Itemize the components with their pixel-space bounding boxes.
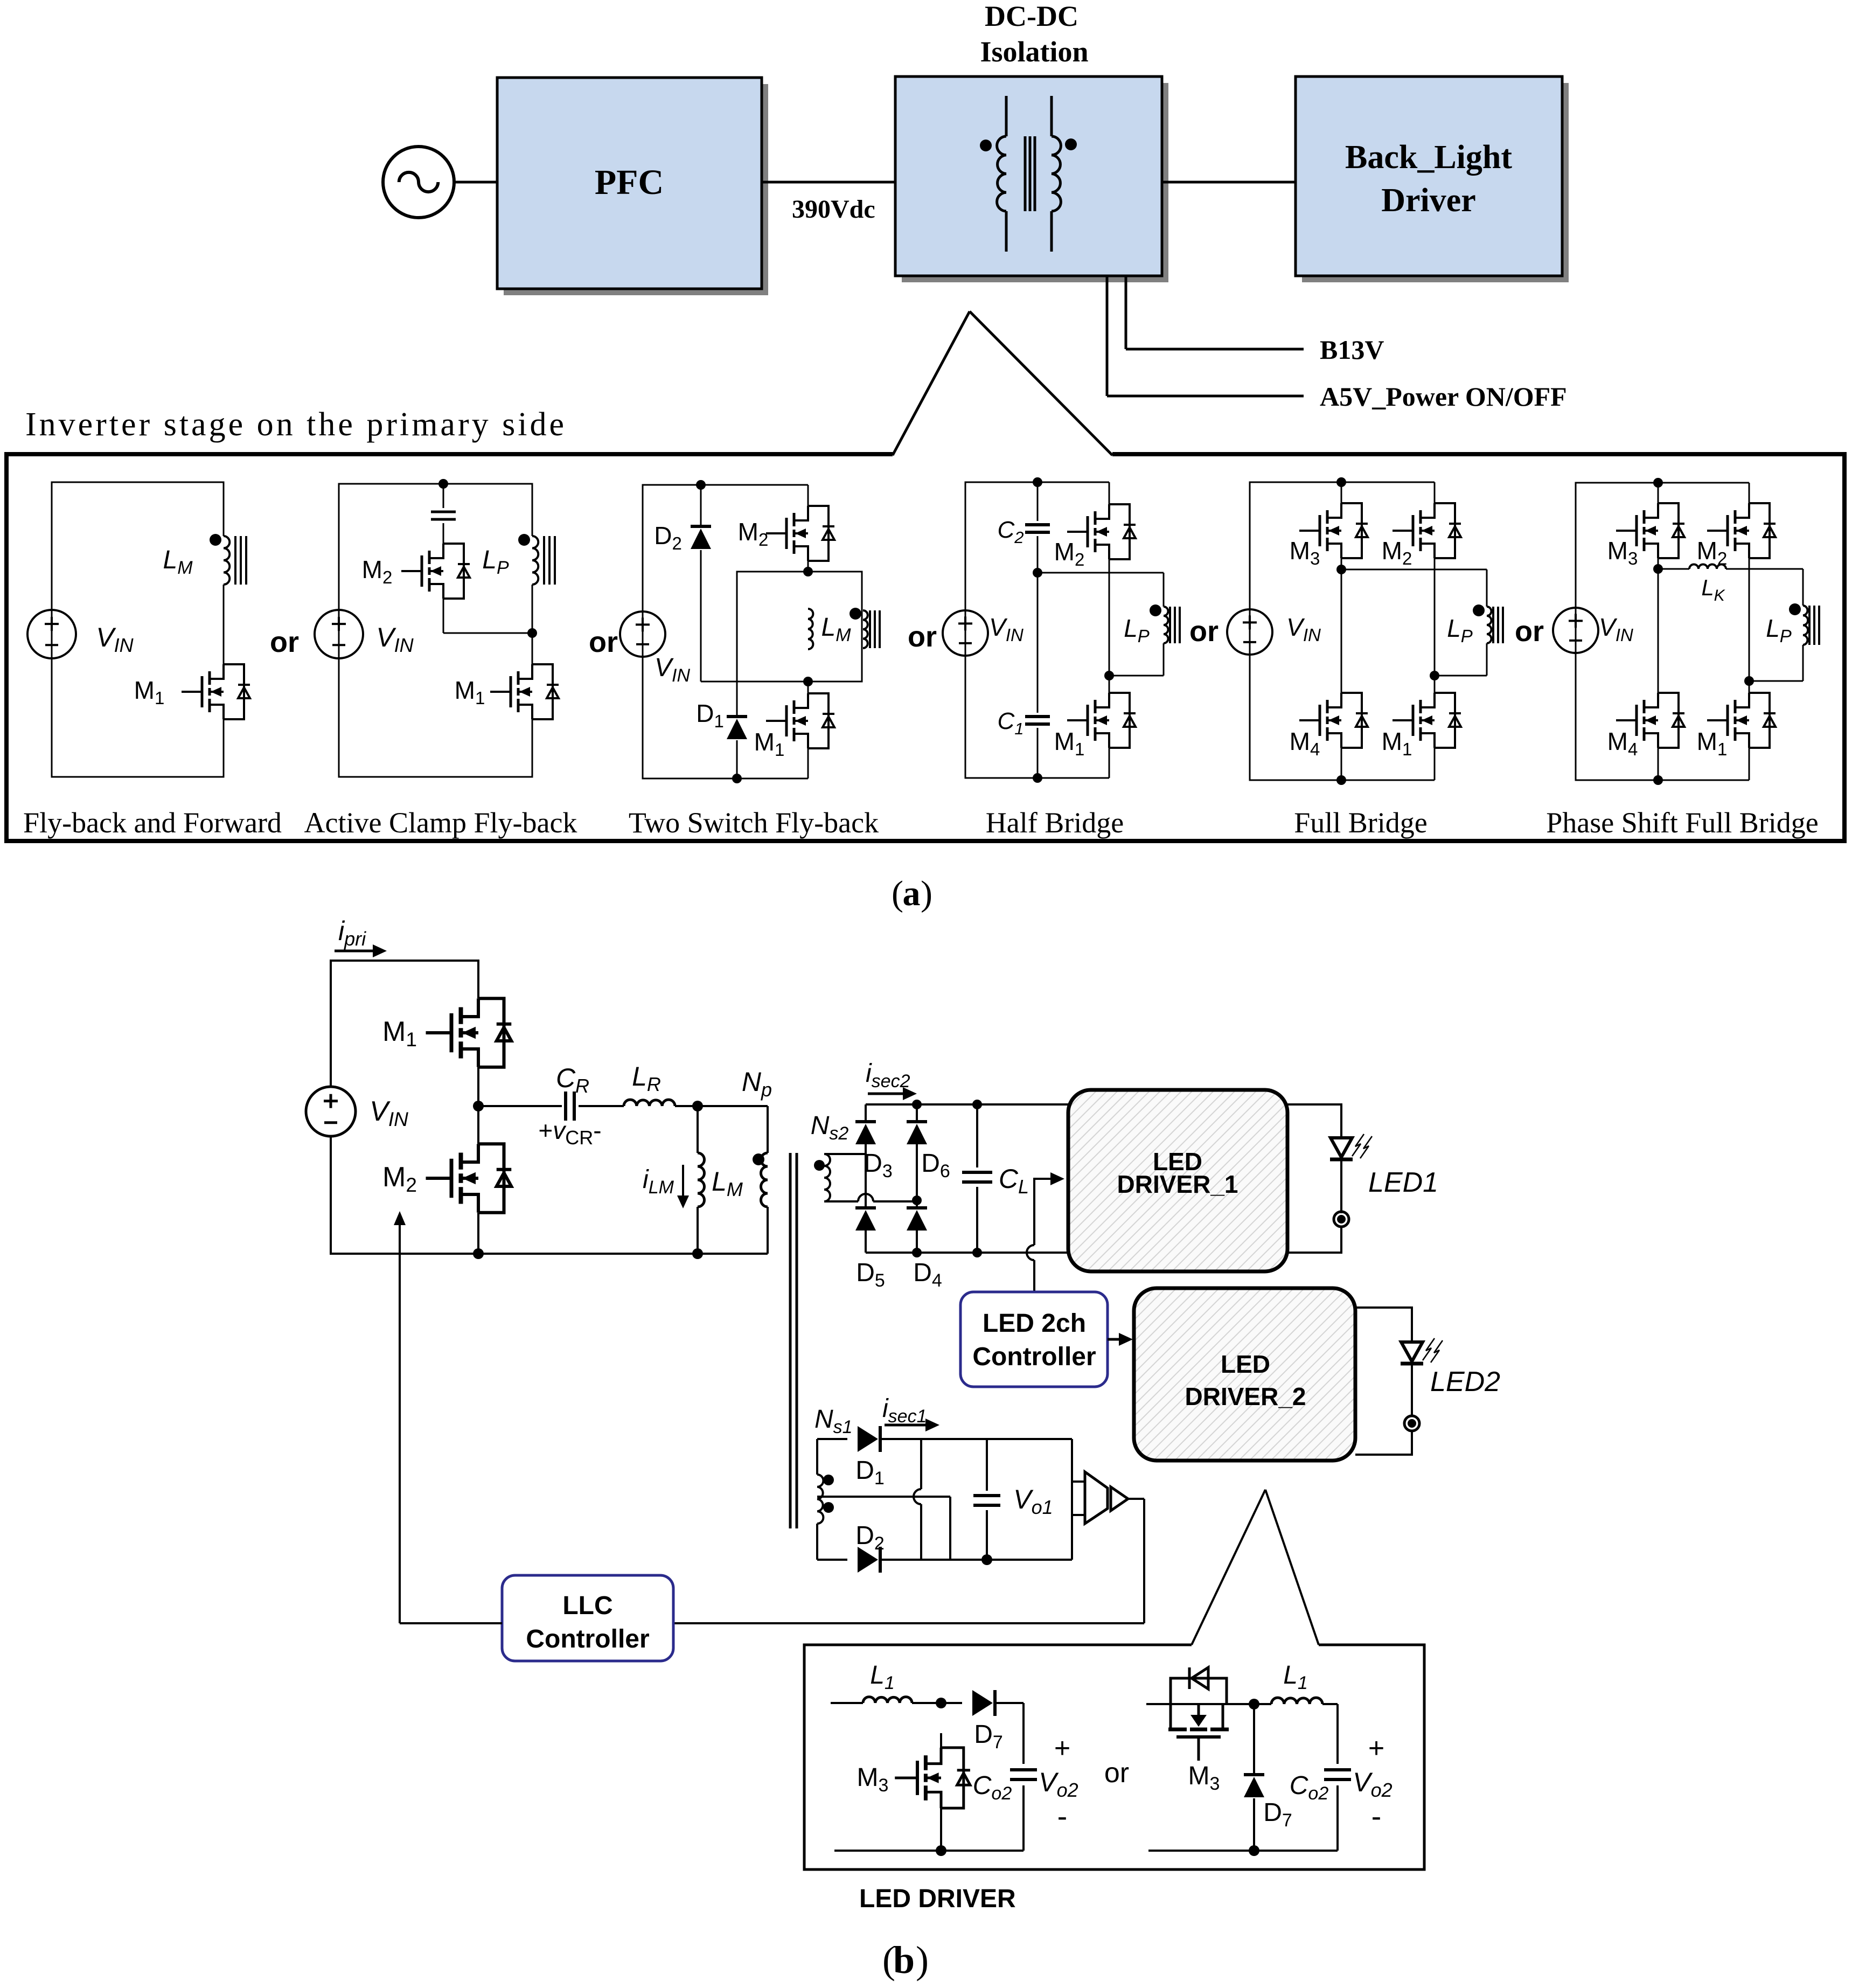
svg-text:or: or: [908, 621, 937, 653]
svg-text:Phase Shift Full Bridge: Phase Shift Full Bridge: [1546, 807, 1819, 839]
svg-text:+: +: [1054, 1733, 1070, 1764]
svg-text:): ): [921, 874, 932, 913]
svg-text:A5V_Power ON/OFF: A5V_Power ON/OFF: [1320, 381, 1567, 412]
svg-text:DRIVER_1: DRIVER_1: [1117, 1170, 1238, 1198]
svg-text:B13V: B13V: [1320, 335, 1384, 365]
svg-text:Half Bridge: Half Bridge: [986, 807, 1124, 839]
svg-text:Two Switch Fly-back: Two Switch Fly-back: [629, 807, 879, 839]
svg-text:or: or: [270, 626, 299, 658]
svg-text:or: or: [1515, 615, 1544, 648]
svg-text:DC-DC: DC-DC: [985, 0, 1078, 32]
svg-text:DRIVER_2: DRIVER_2: [1185, 1382, 1306, 1410]
svg-text:390Vdc: 390Vdc: [792, 195, 875, 224]
svg-text:Active Clamp Fly-back: Active Clamp Fly-back: [304, 807, 577, 839]
svg-text:LED 2ch: LED 2ch: [983, 1309, 1086, 1338]
svg-text:or: or: [1104, 1757, 1129, 1789]
svg-text:b: b: [893, 1938, 915, 1982]
svg-text:Controller: Controller: [972, 1343, 1096, 1371]
svg-text:(: (: [892, 874, 903, 913]
svg-text:Fly-back and Forward: Fly-back and Forward: [23, 807, 282, 839]
svg-text:-: -: [1057, 1799, 1068, 1833]
svg-text:Controller: Controller: [526, 1625, 649, 1653]
svg-text:PFC: PFC: [595, 163, 664, 202]
svg-text:or: or: [589, 626, 618, 658]
svg-text:LED: LED: [1221, 1350, 1270, 1378]
svg-text:Inverter stage on the primary: Inverter stage on the primary side: [25, 406, 567, 443]
svg-text:Back_Light: Back_Light: [1345, 139, 1512, 176]
svg-text:Driver: Driver: [1381, 182, 1476, 219]
svg-text:a: a: [903, 874, 921, 913]
svg-text:Isolation: Isolation: [980, 36, 1088, 68]
svg-text:Full Bridge: Full Bridge: [1294, 807, 1428, 839]
svg-text:or: or: [1189, 615, 1219, 648]
svg-text:LED2: LED2: [1430, 1366, 1500, 1398]
svg-text:LED1: LED1: [1368, 1167, 1438, 1198]
svg-text:+: +: [1368, 1733, 1384, 1764]
svg-text:LLC: LLC: [562, 1591, 612, 1620]
svg-text:LED DRIVER: LED DRIVER: [859, 1885, 1016, 1913]
svg-text:): ): [916, 1938, 929, 1982]
svg-text:-: -: [1371, 1799, 1382, 1833]
